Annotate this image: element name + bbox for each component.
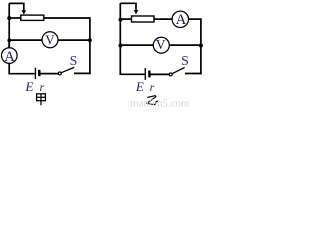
svg-text:A: A — [4, 49, 15, 65]
caption 乙 (drawn glyph) — [147, 96, 157, 105]
wire: voltmeter branch right — [169, 44, 201, 46]
voltmeter V1 circle — [42, 32, 58, 48]
junction node (right, voltmeter branch) — [199, 44, 203, 48]
wire: slider bend over rheostat R1 — [9, 3, 24, 10]
wire: rheostat right terminal to top-right corner — [44, 17, 90, 19]
slider arrowhead onto rheostat R1 — [22, 10, 27, 14]
ammeter A1 circle — [2, 48, 18, 64]
ammeter A1 letter — [4, 49, 15, 65]
wire: right vertical — [89, 17, 91, 74]
wire: left vertical — [8, 3, 10, 48]
wire: right vertical — [200, 18, 202, 74]
wire: switch contact to bottom-right corner — [185, 73, 202, 75]
switch S2 pivot circle — [169, 73, 172, 76]
battery long plate (+) — [34, 68, 36, 79]
svg-text:E: E — [135, 79, 144, 94]
wire: battery to switch pivot — [40, 73, 58, 75]
wire: rheostat to ammeter A2 — [154, 18, 172, 20]
ammeter A2 letter — [176, 12, 187, 28]
label S (switch, right) — [181, 53, 189, 68]
wire: bottom left to battery — [120, 73, 145, 75]
label E (emf, right) — [135, 79, 144, 94]
junction node (left, rheostat wire) — [119, 18, 123, 22]
svg-text:manfen5.com: manfen5.com — [130, 97, 190, 107]
wire: left vertical between junction and ammeter — [8, 40, 10, 49]
battery short plate (-) — [148, 71, 150, 78]
junction node (left, voltmeter branch) — [7, 39, 11, 43]
junction node (left, voltmeter branch) — [118, 44, 122, 48]
label r (internal resistance) — [40, 80, 45, 94]
svg-text:A: A — [176, 12, 187, 28]
wire: voltmeter branch left — [9, 39, 42, 41]
watermark manfen5.com — [130, 97, 190, 109]
label E (emf) — [25, 79, 34, 94]
svg-text:E: E — [25, 79, 34, 94]
battery short plate (-) — [38, 70, 40, 76]
junction node (right, voltmeter branch) — [88, 38, 92, 42]
wire: bottom left to battery — [9, 72, 35, 75]
svg-text:r: r — [150, 80, 155, 94]
svg-text:V: V — [45, 33, 55, 47]
wire: ammeter to bottom-left corner — [8, 63, 10, 73]
svg-text:S: S — [70, 53, 78, 68]
battery long plate (+) — [144, 68, 146, 80]
wire: voltmeter branch right — [58, 39, 90, 41]
wire: junction to rheostat left terminal — [9, 17, 21, 19]
slider arrowhead onto rheostat R2 — [134, 10, 139, 14]
voltmeter V2 letter — [156, 37, 166, 52]
wire: junction to rheostat left terminal — [120, 18, 131, 20]
voltmeter V2 circle — [153, 37, 169, 53]
switch S pivot circle — [58, 72, 61, 75]
wire: switch contact to bottom-right corner — [74, 72, 91, 74]
wire: slider bend over rheostat R2 — [120, 3, 136, 10]
rheostat R2 (resistor box) — [132, 16, 155, 22]
voltmeter V1 letter — [45, 33, 55, 47]
junction node (left, rheostat wire) — [7, 16, 11, 20]
wire: battery to switch pivot — [151, 73, 170, 75]
label S (switch) — [70, 53, 78, 68]
wire: ammeter to top-right corner — [189, 18, 201, 20]
rheostat R1 (resistor box) — [21, 15, 44, 20]
switch S2 lever — [172, 68, 185, 74]
svg-text:S: S — [181, 53, 189, 68]
ammeter A2 circle — [172, 11, 188, 27]
caption 甲 (drawn glyph) — [37, 94, 46, 106]
wire: voltmeter branch left — [120, 44, 153, 46]
svg-text:r: r — [40, 80, 45, 94]
svg-text:V: V — [156, 37, 166, 52]
switch S lever — [61, 67, 74, 72]
wire: left vertical — [119, 3, 121, 74]
label r (internal resistance, right) — [150, 80, 155, 94]
